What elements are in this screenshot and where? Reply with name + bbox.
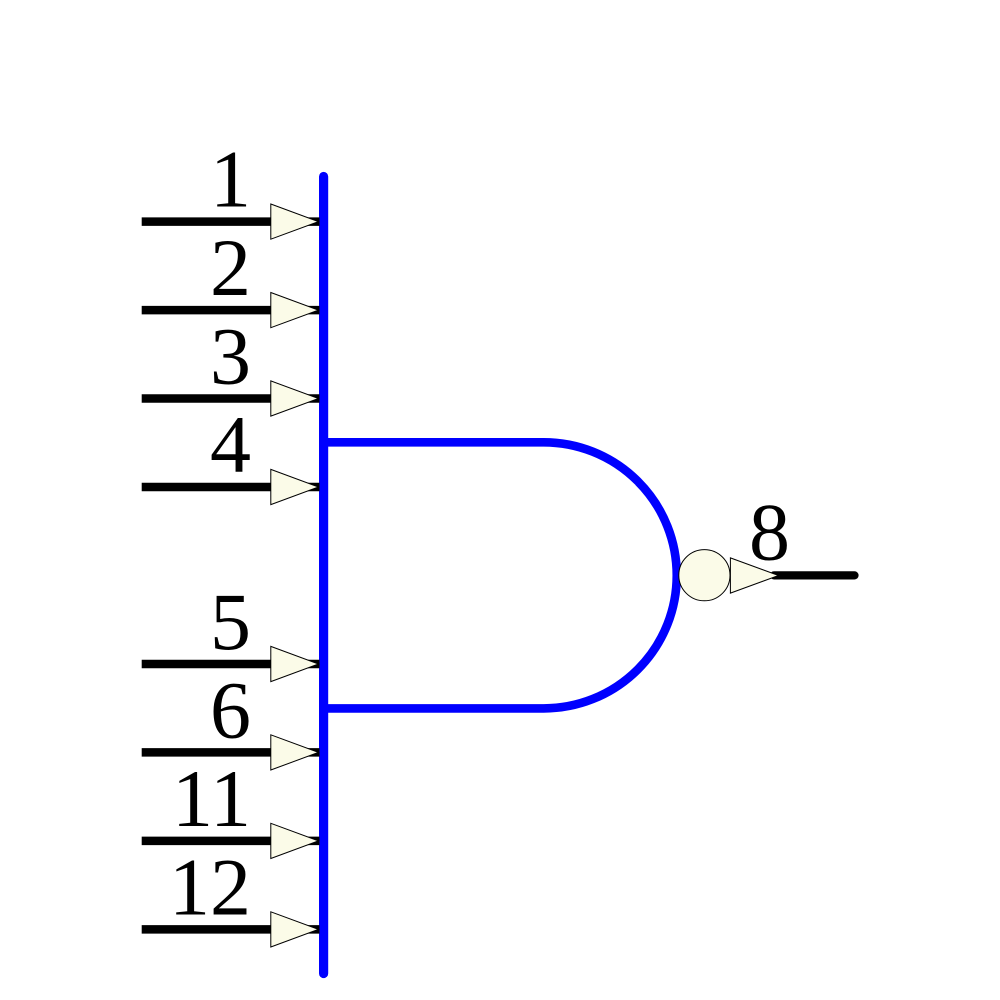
pin 3 arrow bbox=[271, 381, 319, 416]
input bus (vertical blue line) bbox=[319, 177, 328, 974]
pin 3 wire bbox=[142, 394, 320, 403]
svg-text:3: 3 bbox=[210, 311, 251, 402]
inversion bubble bbox=[679, 550, 730, 601]
NAND gate body outline (top edge, right arc, bottom edge) bbox=[324, 442, 677, 708]
svg-text:12: 12 bbox=[169, 841, 251, 932]
svg-text:6: 6 bbox=[210, 664, 251, 755]
pin 11 wire bbox=[142, 837, 320, 846]
pin 5 arrow bbox=[271, 646, 319, 681]
pin 6 wire bbox=[142, 748, 320, 757]
pin 2 arrow bbox=[271, 293, 319, 328]
pin 4 wire bbox=[142, 483, 320, 492]
svg-text:1: 1 bbox=[210, 134, 251, 225]
pin 12 arrow bbox=[271, 912, 319, 947]
pin 1 wire bbox=[142, 217, 320, 226]
svg-text:4: 4 bbox=[210, 399, 251, 490]
svg-text:8: 8 bbox=[749, 487, 790, 578]
pin 1 arrow bbox=[271, 204, 319, 239]
svg-text:11: 11 bbox=[172, 753, 251, 844]
pin 11 arrow bbox=[271, 823, 319, 858]
pin 6 arrow bbox=[271, 735, 319, 770]
pin 8 arrow (output) bbox=[730, 558, 778, 593]
pin 4 arrow bbox=[271, 469, 319, 504]
pin 12 wire bbox=[142, 925, 320, 934]
pin 8 wire (output) bbox=[774, 571, 855, 579]
pin 2 wire bbox=[142, 306, 320, 315]
svg-text:5: 5 bbox=[210, 576, 251, 667]
svg-text:2: 2 bbox=[210, 222, 251, 313]
pin 5 wire bbox=[142, 660, 320, 669]
